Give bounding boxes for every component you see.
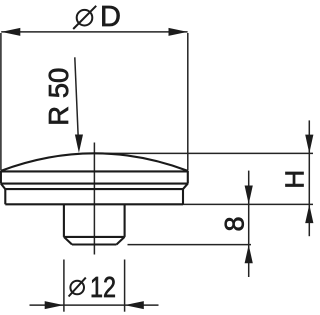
arrow D left [1,28,20,36]
arrow 8 top [245,186,253,205]
stem chamfer left [64,237,72,245]
cap outer edge left [0,171,2,184]
extension line diameter 12 right [124,260,126,312]
extension line diameter 12 left [63,260,65,312]
arrow diameter 12 left [45,301,64,309]
dimension line H [308,120,310,236]
stem chamfer line [64,236,125,238]
rim top line [1,170,188,172]
cap outer edge right [187,171,189,184]
stem bottom line [72,243,117,245]
dome arc R50 [1,153,188,171]
svg-text:H: H [280,170,310,189]
arrow 8 bottom [245,245,253,264]
extension line H bottom / 8 top (flange bottom extended) [183,203,313,205]
flange side left [4,189,6,204]
svg-text:R 50: R 50 [43,68,74,126]
stem chamfer right [117,237,125,245]
arrow R50 leader [75,135,83,153]
dimension line 8 [248,171,250,277]
arrow H top [305,135,313,154]
arrow D right [169,28,188,36]
svg-text:12: 12 [90,271,116,304]
flange side right [182,189,184,204]
chamfer right [183,184,188,190]
flange bottom line [5,203,183,205]
extension line H top (apex tangent) [95,152,313,154]
rim bottom line [1,183,188,185]
label diameter D [73,1,121,33]
centerline [93,143,95,255]
chamfer left [1,184,5,190]
arrow diameter 12 right [125,301,144,309]
dimension line diameter 12 [30,304,159,306]
stem side right [124,204,126,237]
svg-text:8: 8 [219,216,249,231]
extension line 8 (stem bottom extended) [128,244,252,246]
arrow H bottom [305,205,313,224]
svg-text:D: D [100,1,121,33]
extension line D right [187,33,189,170]
extension line D left [0,33,2,170]
stem side left [63,204,65,237]
dimension line diameter D [1,31,187,33]
leader line R50 [75,57,78,137]
label diameter 12 [69,271,116,304]
flange top line [5,188,183,190]
